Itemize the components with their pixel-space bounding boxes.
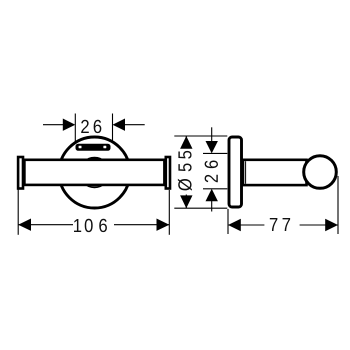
mounting plate screw hole right xyxy=(103,146,106,149)
rosette inner hub circle xyxy=(80,158,110,188)
dim77 extension line left xyxy=(227,209,229,234)
dim77 label 77 xyxy=(270,218,290,231)
dim26top arrow left xyxy=(63,119,76,131)
dim26side extension line top xyxy=(203,152,227,154)
dim55 extension line bottom xyxy=(174,207,227,209)
dim106 label 106 xyxy=(74,219,107,232)
dim55 line bottom segment xyxy=(185,195,187,209)
hook ball xyxy=(304,156,337,189)
dim26side arrow top xyxy=(206,141,218,153)
dim77 arrow left xyxy=(228,219,241,231)
dim106 extension line right xyxy=(168,190,170,235)
left end cap xyxy=(18,157,23,189)
dim26side label 26 xyxy=(205,160,218,182)
dim106 extension line left xyxy=(17,190,19,235)
dim26top arrow right xyxy=(113,119,126,131)
arm joint line xyxy=(245,161,247,184)
dim77 line left segment xyxy=(228,224,264,226)
dim26top tail right xyxy=(125,124,145,126)
towel bar body xyxy=(24,160,164,185)
dim26side extension line bottom xyxy=(203,188,227,190)
right end cap xyxy=(166,157,170,189)
dim55 arrow bottom xyxy=(180,195,192,208)
dim106 line right segment xyxy=(114,224,169,226)
dim26top label 26 xyxy=(81,120,101,133)
dim26side tail top xyxy=(211,127,213,142)
dim26top tail left xyxy=(43,124,63,126)
dim55 arrow top xyxy=(180,136,192,149)
dim55 label O55 xyxy=(178,151,192,191)
dim77 arrow right xyxy=(325,219,338,231)
hook arm xyxy=(243,160,307,185)
dim77 extension line right xyxy=(337,176,339,234)
dim55 extension line top xyxy=(174,135,227,137)
dim26top extension line right xyxy=(112,114,114,141)
dim77 line right segment xyxy=(300,224,338,226)
dim26side tail bottom xyxy=(211,201,213,212)
mounting plate screw hole left xyxy=(79,146,82,149)
wall plate (side view) xyxy=(229,137,242,207)
mounting plate (black) xyxy=(76,144,111,151)
dim106 arrow right xyxy=(157,219,170,231)
dim55 line top segment xyxy=(185,136,187,149)
dim106 line left segment xyxy=(18,224,73,226)
dim26top extension line left xyxy=(74,114,76,145)
dim26side arrow bottom xyxy=(206,189,218,201)
dim106 arrow left xyxy=(18,219,31,231)
rosette outer circle (front view) xyxy=(59,137,130,208)
